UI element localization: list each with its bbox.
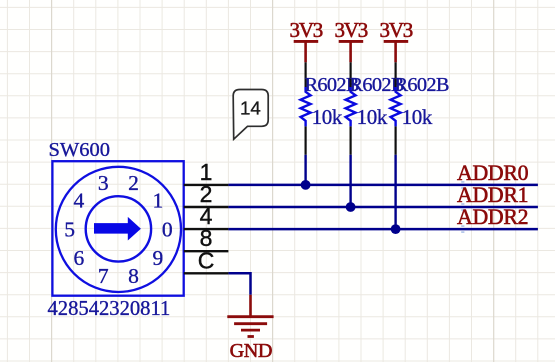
- svg-text:2: 2: [128, 171, 139, 195]
- svg-text:ADDR2: ADDR2: [457, 205, 528, 229]
- svg-text:SW600: SW600: [49, 139, 111, 161]
- callout balloon 14: [233, 90, 268, 140]
- power port 3V3 (left): [290, 18, 323, 62]
- net label anchor marks ADDR1: [461, 203, 464, 211]
- svg-text:10k: 10k: [402, 105, 433, 129]
- svg-text:R602B: R602B: [395, 74, 449, 96]
- junction ADDR2: [391, 224, 401, 234]
- ground GND: [227, 295, 273, 362]
- junction ADDR0: [301, 180, 311, 190]
- svg-text:C: C: [198, 247, 215, 273]
- svg-text:428542320811: 428542320811: [48, 298, 171, 320]
- svg-text:3V3: 3V3: [290, 18, 323, 42]
- svg-text:GND: GND: [230, 340, 272, 362]
- arrow pointer: [94, 217, 141, 241]
- resistor R602A (left): [301, 62, 359, 155]
- svg-text:5: 5: [64, 217, 75, 241]
- svg-text:ADDR0: ADDR0: [457, 161, 529, 185]
- net label anchor marks ADDR0: [461, 181, 464, 189]
- power port 3V3 (right): [380, 18, 413, 62]
- resistor R602C (right): [391, 62, 449, 155]
- inner dial circle: [86, 196, 151, 261]
- svg-text:7: 7: [98, 264, 109, 288]
- wire ADDR2 horizontal: [228, 228, 538, 231]
- svg-text:3V3: 3V3: [335, 18, 368, 42]
- svg-text:10k: 10k: [357, 105, 388, 129]
- wire resistor R602C to ADDR2: [394, 155, 396, 229]
- pin 8: [184, 225, 229, 251]
- net label anchor marks ADDR2: [461, 225, 464, 233]
- wire resistor R602A to ADDR0: [304, 155, 306, 185]
- svg-text:ADDR1: ADDR1: [457, 183, 528, 207]
- pin C: [184, 247, 229, 273]
- power port 3V3 (middle): [335, 18, 368, 62]
- switch body box: [52, 161, 183, 296]
- svg-text:6: 6: [74, 246, 85, 270]
- junction ADDR1: [346, 202, 356, 212]
- wire ADDR1 horizontal: [228, 206, 538, 209]
- wire ADDR0 horizontal: [228, 184, 538, 187]
- svg-text:8: 8: [128, 264, 139, 288]
- rotary switch SW600: [48, 139, 184, 320]
- resistor R602B (middle): [346, 62, 404, 155]
- svg-text:3V3: 3V3: [380, 18, 413, 42]
- pin 2: [184, 181, 229, 207]
- svg-text:10k: 10k: [312, 105, 343, 129]
- wire from pin C to GND: [228, 273, 250, 295]
- wire resistor R602B to ADDR1: [349, 155, 351, 207]
- svg-text:14: 14: [240, 97, 261, 118]
- svg-text:9: 9: [153, 246, 164, 270]
- svg-text:3: 3: [98, 171, 109, 195]
- pin 4: [184, 203, 229, 229]
- svg-text:4: 4: [74, 189, 85, 213]
- svg-text:1: 1: [153, 189, 164, 213]
- outer dial circle: [56, 167, 181, 292]
- pin 1: [184, 159, 229, 185]
- svg-text:0: 0: [162, 217, 173, 241]
